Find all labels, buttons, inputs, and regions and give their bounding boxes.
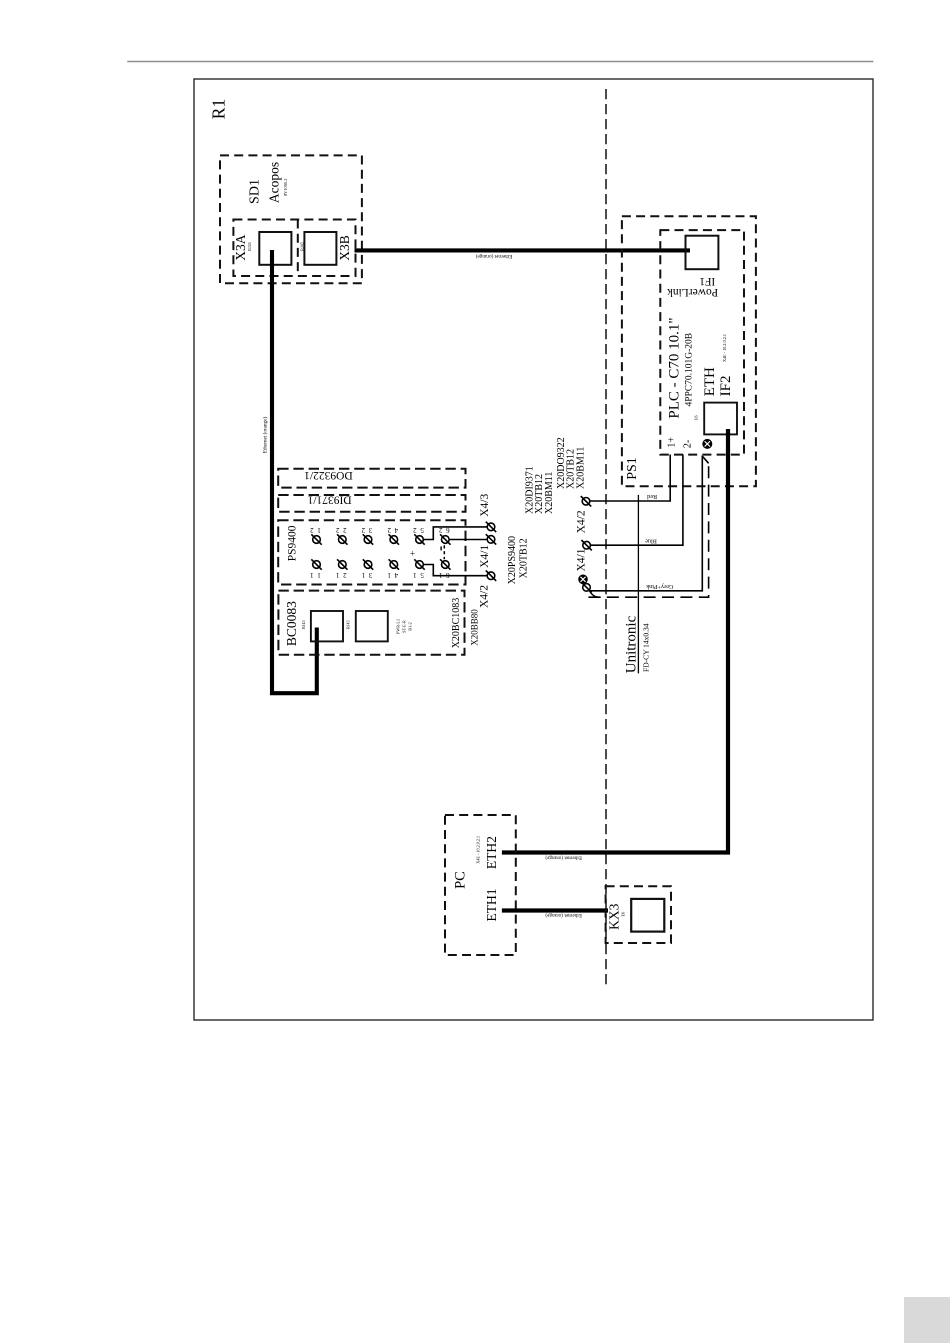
svg-text:2: 2 — [413, 526, 417, 534]
PLC port square ETH IF2 — [704, 403, 737, 435]
polarity - mark terminal 2/6 — [440, 546, 442, 550]
power supply PS9400 module box — [278, 520, 465, 584]
svg-text:Blue: Blue — [645, 537, 657, 544]
svg-text:Grey+Pink: Grey+Pink — [645, 583, 673, 590]
svg-text:IF2: IF2 — [718, 375, 734, 396]
svg-text:Ethernet (orange): Ethernet (orange) — [545, 855, 582, 862]
svg-text:RJ45: RJ45 — [301, 620, 306, 629]
svg-text:X4/2: X4/2 — [576, 510, 588, 533]
diagram border frame — [194, 79, 873, 1020]
svg-text:DI9371/1: DI9371/1 — [307, 494, 351, 506]
svg-text:E6: E6 — [621, 912, 626, 917]
svg-text:PowerLink: PowerLink — [667, 286, 718, 298]
cabinet boundary line — [605, 89, 607, 988]
shield drain curve to cable screen — [589, 591, 600, 598]
svg-text:2: 2 — [343, 526, 347, 534]
digital input DI9371 module box — [278, 495, 465, 512]
connector break shield — [581, 582, 591, 592]
connector break X4/2 (PS side) — [486, 571, 496, 581]
wire PS terminal 2/5 to connector X4/3 — [423, 527, 487, 540]
thick ethernet cable PC ETH1 to KX3 — [502, 908, 608, 912]
svg-text:RJ45: RJ45 — [247, 242, 252, 251]
shield tick diagonal — [702, 456, 708, 463]
svg-text:ETH2: ETH2 — [484, 836, 499, 869]
svg-text:X20BM11: X20BM11 — [575, 447, 586, 489]
page number box — [904, 1297, 950, 1343]
ground terminal symbol on PLC — [703, 440, 712, 449]
connector break X4/2 (PLC side) — [581, 496, 591, 506]
terminal 1/1 — [313, 561, 321, 569]
connector break X4/1 (PS side) — [486, 534, 496, 544]
svg-text:X4/3: X4/3 — [479, 494, 491, 517]
svg-text:3: 3 — [368, 526, 372, 534]
svg-text:+: + — [410, 548, 415, 558]
wire X3A to bus controller (thick ethernet cable) — [272, 250, 317, 693]
svg-text:R1: R1 — [209, 99, 229, 119]
shield ground symbol at X4/1 — [579, 575, 587, 583]
svg-text:X4E - 10.2.0.2.1: X4E - 10.2.0.2.1 — [722, 334, 727, 362]
cable line Unitronic — [637, 495, 639, 674]
internal dashed link terminal 6 — [443, 545, 445, 559]
svg-text:4: 4 — [394, 571, 398, 579]
terminal 1/6 — [442, 561, 450, 569]
terminal number labels row 2 — [310, 526, 450, 534]
svg-text:X1: X1 — [674, 248, 679, 253]
svg-text:X20PS9400: X20PS9400 — [507, 536, 518, 584]
camera KX3 enclosure — [606, 886, 671, 943]
svg-text:B1-2: B1-2 — [407, 622, 412, 630]
terminal 1/5 — [416, 561, 424, 569]
svg-text:2: 2 — [361, 526, 365, 534]
svg-text:X4E - 10.2.0.2.1: X4E - 10.2.0.2.1 — [476, 836, 481, 864]
svg-text:PS1: PS1 — [625, 457, 640, 480]
shield wire to ground (Grey+Pink) — [590, 456, 702, 591]
BC0083 port square 1 — [311, 611, 343, 641]
svg-text:5: 5 — [420, 571, 424, 579]
terminal 1/4 — [390, 561, 398, 569]
svg-text:1: 1 — [335, 571, 339, 579]
svg-text:ST-E-R: ST-E-R — [401, 620, 406, 633]
svg-text:FD-CY 14x0.34: FD-CY 14x0.34 — [642, 623, 651, 672]
wire PS terminal 2/6 to connector X4/1 — [449, 539, 487, 541]
svg-text:1: 1 — [317, 526, 321, 534]
svg-text:1+: 1+ — [666, 437, 677, 448]
svg-text:X20TB12: X20TB12 — [519, 538, 530, 578]
svg-text:4: 4 — [394, 526, 398, 534]
svg-text:8V1090.2: 8V1090.2 — [283, 179, 288, 196]
svg-text:X4/1: X4/1 — [479, 545, 491, 568]
wire PS terminal 1/5 to connector X4/2 — [423, 565, 487, 576]
svg-text:PC: PC — [452, 871, 468, 889]
svg-text:Ethernet (orange): Ethernet (orange) — [545, 912, 582, 919]
BC0083 port square 2 — [356, 611, 388, 641]
connector break X4/1 (PLC side) — [581, 540, 591, 550]
header separator rule — [127, 61, 873, 63]
svg-text:2-: 2- — [683, 440, 694, 448]
connector group box X3A/X3B — [233, 220, 355, 277]
digital output DO9322 module box — [278, 469, 465, 488]
svg-text:PS9400: PS9400 — [286, 525, 298, 561]
svg-text:Red: Red — [646, 493, 657, 500]
svg-text:E6: E6 — [693, 415, 698, 420]
svg-text:2: 2 — [310, 526, 314, 534]
PC enclosure — [445, 815, 516, 955]
svg-text:PWR-L1: PWR-L1 — [395, 619, 400, 634]
svg-text:4PPC70.101G-20B: 4PPC70.101G-20B — [685, 333, 695, 407]
svg-text:PLC - C70 10.1": PLC - C70 10.1" — [666, 317, 682, 418]
svg-text:X20BC1083: X20BC1083 — [451, 598, 462, 649]
PLC C70 device box — [660, 230, 744, 455]
terminal 2/3 — [364, 536, 372, 544]
wire 2- to X4/1 (Blue) — [590, 455, 683, 546]
thick ethernet cable PLC IF2 to PC ETH2 — [502, 429, 728, 853]
svg-text:Ethernet (orange): Ethernet (orange) — [476, 253, 513, 260]
svg-text:2: 2 — [343, 571, 347, 579]
port square X3B — [304, 232, 336, 265]
terminal 2/1 — [313, 536, 321, 544]
terminal number labels row 1 — [310, 571, 450, 579]
svg-text:1: 1 — [387, 571, 391, 579]
terminal 1/2 — [339, 561, 347, 569]
svg-text:Unitronic: Unitronic — [624, 615, 640, 673]
svg-text:X20BM11: X20BM11 — [544, 472, 555, 514]
svg-text:ETH: ETH — [702, 367, 718, 396]
power section PS1 enclosure — [622, 216, 756, 486]
svg-text:3: 3 — [368, 571, 372, 579]
svg-text:5: 5 — [420, 526, 424, 534]
svg-text:2: 2 — [387, 526, 391, 534]
svg-text:Acopos: Acopos — [267, 162, 282, 203]
KX3 port square — [631, 899, 664, 932]
svg-text:2: 2 — [335, 526, 339, 534]
cable screen dashed outline — [588, 462, 708, 597]
terminal 1/3 — [364, 561, 372, 569]
svg-text:RJ45: RJ45 — [346, 620, 351, 629]
divider between X3A and X3B — [297, 220, 299, 277]
terminal 2/6 — [442, 536, 450, 544]
connector break X4/3 — [486, 522, 496, 532]
svg-text:IF1: IF1 — [699, 275, 715, 287]
svg-text:SD1: SD1 — [248, 179, 263, 204]
terminal 2/4 — [390, 536, 398, 544]
svg-text:X4/1: X4/1 — [575, 548, 587, 571]
port square X3A — [259, 232, 291, 265]
wire 1+ to X4/2 (Red) — [590, 455, 670, 502]
svg-text:BC0083: BC0083 — [284, 601, 299, 646]
PLC port square IF1 — [686, 236, 719, 270]
svg-text:Ethernet (orange): Ethernet (orange) — [261, 417, 268, 454]
svg-text:1: 1 — [413, 571, 417, 579]
svg-text:1: 1 — [317, 571, 321, 579]
svg-text:KX3: KX3 — [607, 903, 622, 929]
svg-text:1: 1 — [310, 571, 314, 579]
terminal 2/2 — [339, 536, 347, 544]
svg-text:X20BB80: X20BB80 — [469, 609, 479, 646]
servo drive SD1 Acopos enclosure — [220, 155, 362, 283]
svg-text:ETH1: ETH1 — [484, 889, 499, 922]
svg-text:1: 1 — [361, 571, 365, 579]
PS9400 terminal pins row 2 (with break symbols) — [311, 534, 450, 569]
svg-text:DO9322/1: DO9322/1 — [304, 469, 353, 481]
svg-text:X3B: X3B — [337, 235, 352, 261]
terminal 2/5 — [416, 536, 424, 544]
wire X3B to PLC IF1 (thick powerlink cable) — [355, 248, 691, 252]
X20 bus controller BC0083 module box — [278, 591, 464, 655]
svg-text:X4/2: X4/2 — [479, 585, 491, 608]
